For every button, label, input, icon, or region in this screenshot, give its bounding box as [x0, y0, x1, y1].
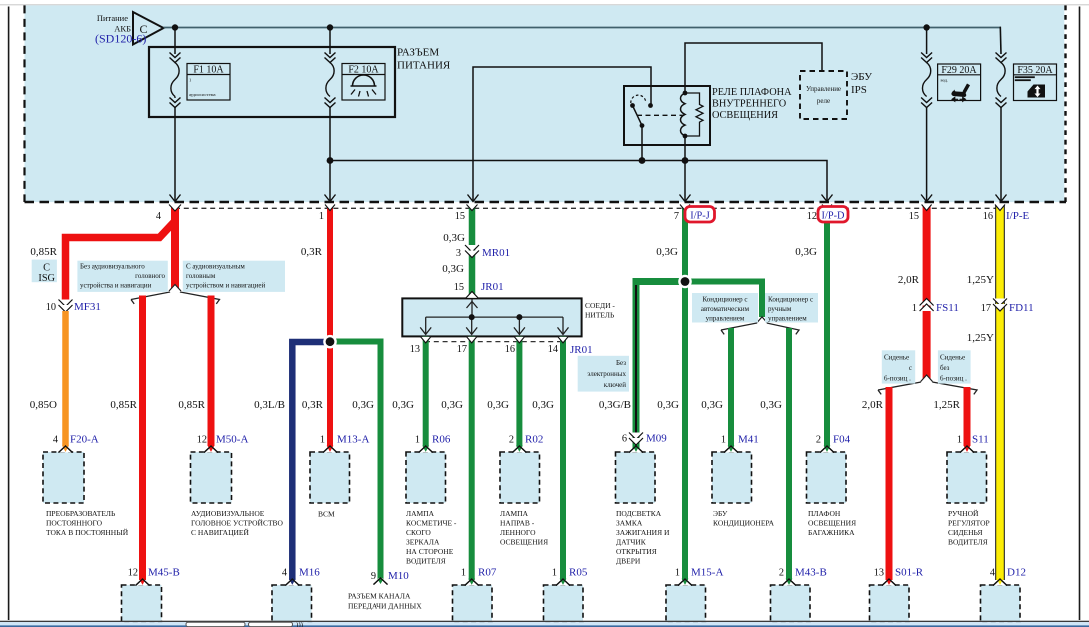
- in-line connector MR01: [456, 245, 510, 259]
- svg-text:4: 4: [282, 568, 287, 579]
- node: switch arm on relay bus: [639, 157, 646, 164]
- connector M10 wire end: [348, 570, 422, 611]
- svg-text:0,3R: 0,3R: [301, 246, 323, 258]
- wire 0.3G joint to R05: [560, 337, 566, 581]
- node junction M13 wire: [323, 335, 337, 349]
- label СОЕДИНИТЕЛЬ: [585, 301, 615, 320]
- svg-text:0,3G: 0,3G: [441, 399, 463, 411]
- connector M45-B: [122, 567, 180, 623]
- variant fork under pin 4: [131, 284, 220, 304]
- svg-text:С НАВИГАЦИЕЙ: С НАВИГАЦИЕЙ: [191, 528, 249, 537]
- white notch pin 4: [169, 205, 181, 212]
- svg-text:ПЕРЕДАЧИ ДАННЫХ: ПЕРЕДАЧИ ДАННЫХ: [348, 602, 422, 611]
- bottom window bar: [0, 621, 1089, 627]
- svg-text:с: с: [909, 364, 912, 372]
- svg-text:C: C: [43, 263, 50, 274]
- svg-text:I/P-D: I/P-D: [822, 211, 845, 222]
- svg-text:ПИТАНИЯ: ПИТАНИЯ: [397, 60, 451, 72]
- white notch pin 1: [325, 205, 335, 211]
- connector R06: [406, 434, 451, 504]
- svg-text:ЛАМПА: ЛАМПА: [406, 509, 435, 518]
- wire 0.3G pin 12 to F04: [824, 205, 830, 446]
- svg-text:0,3G: 0,3G: [442, 263, 464, 275]
- labels 0,3G x4: [392, 399, 554, 411]
- label 1,25Y lower: [967, 332, 994, 344]
- svg-text:S01-R: S01-R: [895, 567, 924, 579]
- label 0,3G/B: [599, 399, 631, 411]
- node: bus junction at F29: [923, 24, 929, 30]
- white notch pin 12: [822, 205, 832, 211]
- svg-text:17: 17: [981, 303, 991, 314]
- label 2,0R: [898, 274, 920, 286]
- callout without electronic keys: [578, 356, 629, 392]
- wire bus into fuse F29: [926, 28, 928, 55]
- svg-text:MR01: MR01: [482, 247, 510, 259]
- svg-text:I/P-J: I/P-J: [690, 211, 709, 222]
- svg-text:4: 4: [156, 211, 161, 222]
- svg-text:12: 12: [197, 435, 207, 446]
- svg-text:0,3G/B: 0,3G/B: [599, 399, 631, 411]
- connector S11: [947, 434, 989, 504]
- wire F2 bus down to pin 1: [329, 161, 331, 202]
- connector code I/P-D: [818, 207, 848, 223]
- svg-text:F35 20A: F35 20A: [1017, 65, 1053, 76]
- wire bus down to pin 7: [684, 161, 686, 202]
- svg-text:ВНУТРЕННЕГО: ВНУТРЕННЕГО: [712, 99, 787, 110]
- svg-text:0,85R: 0,85R: [178, 399, 205, 411]
- svg-text:M50-A: M50-A: [216, 434, 248, 446]
- page frame left border: [8, 7, 10, 621]
- svg-text:РУЧНОЙ: РУЧНОЙ: [948, 509, 979, 518]
- svg-text:R07: R07: [478, 567, 497, 579]
- connector M16: [272, 567, 320, 623]
- svg-text:1: 1: [721, 435, 726, 446]
- label 0,3G M15: [657, 399, 679, 411]
- arrow into pin 16: [996, 195, 1007, 202]
- svg-text:Без: Без: [616, 359, 626, 367]
- svg-text:ПРЕОБРАЗОВАТЕЛЬ: ПРЕОБРАЗОВАТЕЛЬ: [46, 509, 116, 518]
- svg-text:ЗАМКА: ЗАМКА: [616, 519, 643, 528]
- svg-text:0,3L/B: 0,3L/B: [254, 399, 285, 411]
- main battery bus wire: [164, 27, 1002, 29]
- callout seat without 6-pos: [938, 350, 971, 383]
- wire 0.3G to M10: [333, 342, 381, 579]
- svg-text:1: 1: [319, 211, 324, 222]
- wire 0.3L/B to M16: [292, 342, 327, 580]
- svg-text:1,25R: 1,25R: [933, 399, 960, 411]
- svg-text:4: 4: [53, 435, 58, 446]
- svg-text:R06: R06: [432, 434, 451, 446]
- svg-text:ЗЕРКАЛА: ЗЕРКАЛА: [406, 538, 440, 547]
- svg-text:Без аудиовизуального: Без аудиовизуального: [80, 262, 145, 270]
- svg-text:управлением: управлением: [768, 315, 807, 323]
- relay switch contacts: [630, 95, 684, 128]
- fuse F35 label box with power window icon: [1014, 64, 1057, 101]
- svg-text:2: 2: [779, 568, 784, 579]
- IPS control unit dashed box: [800, 71, 847, 119]
- power supply hot-at-all-times shaded box: [25, 5, 1067, 202]
- wire relay coil to IPS control: [685, 43, 822, 93]
- svg-text:устройством и навигацией: устройством и навигацией: [186, 281, 265, 289]
- svg-text:16: 16: [983, 211, 993, 222]
- description M13-A: [318, 510, 335, 519]
- white notch pin 15: [467, 205, 478, 211]
- svg-text:6: 6: [622, 434, 627, 445]
- fuse F35 symbol: [996, 27, 1007, 108]
- svg-text:M15-A: M15-A: [691, 567, 723, 579]
- svg-text:1: 1: [461, 568, 466, 579]
- connector code I/P-J: [685, 207, 715, 223]
- wire relay switch arm to bus: [641, 126, 643, 161]
- wire F29 to pin 15 right: [926, 108, 928, 202]
- wire from bus into fuse F2: [329, 28, 331, 55]
- wire 0.3G joint to R02: [516, 337, 522, 447]
- svg-text:ОСВЕЩЕНИЯ: ОСВЕЩЕНИЯ: [500, 538, 548, 547]
- svg-text:0,3G: 0,3G: [760, 399, 782, 411]
- node junction pin7 wire: [678, 275, 692, 289]
- svg-text:1: 1: [957, 435, 962, 446]
- svg-text:2,0R: 2,0R: [862, 399, 884, 411]
- description M09: [616, 509, 670, 566]
- svg-text:0,85O: 0,85O: [30, 399, 57, 411]
- svg-text:0,3G: 0,3G: [352, 399, 374, 411]
- svg-text:БАГАЖНИКА: БАГАЖНИКА: [808, 528, 855, 537]
- svg-text:15: 15: [454, 282, 464, 293]
- svg-text:FS11: FS11: [936, 302, 959, 314]
- connector M15-A: [666, 567, 723, 623]
- variant fork seats: [878, 375, 977, 395]
- wire 2.0R pin 15 to seat fork: [923, 205, 931, 380]
- wire from bus into fuse F1: [174, 28, 176, 55]
- svg-text:ПЛАФОН: ПЛАФОН: [808, 509, 841, 518]
- fuse F29 symbol: [921, 53, 932, 108]
- svg-text:M10: M10: [388, 570, 409, 582]
- svg-text:НАПРАВ -: НАПРАВ -: [500, 519, 535, 528]
- svg-text:устройства и навигации: устройства и навигации: [80, 281, 152, 289]
- svg-text:15: 15: [909, 211, 919, 222]
- svg-text:6-позиц .: 6-позиц .: [940, 375, 967, 383]
- svg-text:2: 2: [509, 435, 514, 446]
- description M41: [713, 509, 775, 528]
- arrow into pin 1: [325, 195, 336, 202]
- node: bus junction at F2: [327, 24, 333, 30]
- svg-text:FD11: FD11: [1009, 302, 1034, 314]
- svg-text:R02: R02: [525, 434, 543, 446]
- svg-text:СОЕДИ -: СОЕДИ -: [585, 301, 615, 310]
- svg-text:F2 10A: F2 10A: [348, 65, 379, 76]
- callout without audio-visual unit: [77, 261, 167, 292]
- svg-text:ОСВЕЩЕНИЯ: ОСВЕЩЕНИЯ: [712, 110, 778, 121]
- description F20-A: [46, 509, 129, 537]
- svg-text:0,3G: 0,3G: [656, 246, 678, 258]
- fuse F29 label box with driver seat icon: [938, 64, 981, 101]
- svg-text:автоматическим: автоматическим: [701, 305, 750, 313]
- svg-text:16: 16: [505, 344, 515, 355]
- label 1,25Y: [967, 274, 994, 286]
- svg-text:M41: M41: [738, 434, 759, 446]
- svg-text:ЛЕННОГО: ЛЕННОГО: [500, 528, 536, 537]
- svg-text:ЛАМПА: ЛАМПА: [500, 509, 529, 518]
- label РАЗЪЕМ ПИТАНИЯ: [397, 47, 451, 72]
- wire F1 to pin 4: [174, 108, 176, 202]
- description F04: [808, 509, 856, 537]
- pin labels row: [156, 210, 1030, 222]
- page frame right border: [1079, 7, 1081, 621]
- relay switched output wire to pin 15: [473, 67, 651, 201]
- arrow into pin 15: [468, 195, 479, 202]
- connector R07: [453, 567, 497, 623]
- svg-text:головным: головным: [186, 272, 216, 280]
- svg-text:НИТЕЛЬ: НИТЕЛЬ: [585, 311, 615, 320]
- wire relay coil to bus: [684, 136, 686, 161]
- joint exit pin labels 13 17 16 14 JR01: [410, 344, 593, 356]
- svg-text:3: 3: [456, 248, 461, 259]
- label 0,85R M45: [110, 399, 137, 411]
- wire 0.3G from pin 15 to joint connector: [469, 205, 476, 297]
- svg-text:0,85R: 0,85R: [110, 399, 137, 411]
- svg-text:F29 20A: F29 20A: [941, 65, 977, 76]
- svg-text:АУДИОВИЗУАЛЬНОЕ: АУДИОВИЗУАЛЬНОЕ: [191, 509, 265, 518]
- svg-text:ОТКРЫТИЯ: ОТКРЫТИЯ: [616, 547, 657, 556]
- svg-text:без: без: [940, 364, 950, 372]
- wire 0.3R from pin 1 to M13-A: [327, 205, 333, 446]
- wire 2.0R to S01-R: [886, 387, 893, 580]
- connector M13-A: [310, 434, 369, 504]
- labels 0,3G M41 M43: [701, 399, 782, 411]
- wire F35 to pin 16: [1000, 108, 1002, 202]
- description S11: [948, 509, 990, 547]
- svg-text:ручным: ручным: [768, 305, 792, 313]
- wire 0.85R from pin 4 (main): [171, 205, 179, 290]
- svg-text:13: 13: [874, 568, 884, 579]
- label РЕЛЕ ПЛАФОНА ВНУТРЕННЕГО ОСВЕЩЕНИЯ: [712, 87, 792, 121]
- arrow into pin 15 right: [921, 195, 932, 202]
- fuse F2 symbol: [325, 53, 336, 108]
- svg-text:КОСМЕТИЧЕ -: КОСМЕТИЧЕ -: [406, 519, 457, 528]
- svg-text:M43-B: M43-B: [795, 567, 827, 579]
- svg-text:1: 1: [912, 303, 917, 314]
- relay feed bus wire to pin 12: [330, 161, 827, 202]
- svg-text:13: 13: [410, 344, 420, 355]
- connector F04: [807, 434, 851, 504]
- variant fork AC: [721, 316, 799, 334]
- label 0,3G pin12: [795, 246, 817, 258]
- wire 1.25Y pin 16 to D12: [995, 205, 1005, 580]
- svg-text:M13-A: M13-A: [337, 434, 369, 446]
- svg-text:1,25Y: 1,25Y: [967, 332, 994, 344]
- description R02: [500, 509, 548, 547]
- svg-text:ГОЛОВНОЕ УСТРОЙСТВО: ГОЛОВНОЕ УСТРОЙСТВО: [191, 519, 284, 528]
- svg-text:управлением: управлением: [706, 315, 745, 323]
- svg-text:M09: M09: [646, 433, 667, 445]
- svg-text:КОНДИЦИОНЕРА: КОНДИЦИОНЕРА: [713, 519, 775, 528]
- relay К1 interior lamp relay box: [624, 86, 710, 145]
- wire 1.25R to S11: [964, 387, 971, 446]
- svg-text:F04: F04: [833, 434, 851, 446]
- svg-text:F1 10A: F1 10A: [193, 65, 224, 76]
- white notch pin 7: [680, 205, 690, 211]
- connector R05: [544, 567, 588, 623]
- svg-text:ОСВЕЩЕНИЯ: ОСВЕЩЕНИЯ: [808, 519, 856, 528]
- arrow into pin 4: [170, 195, 181, 202]
- svg-text:M45-B: M45-B: [148, 567, 180, 579]
- connector M09: [616, 446, 656, 503]
- wire F2 down to relay bus: [329, 108, 331, 161]
- battery feed triangle connector C (SD120-6): [95, 12, 164, 46]
- fuse F1 label box: [187, 64, 230, 101]
- svg-text:10: 10: [46, 302, 56, 313]
- joint connector exit pins dashed line: [425, 341, 563, 343]
- joint connector box СОЕДИНИТЕЛЬ: [402, 292, 581, 337]
- labels 0,3L/B 0,3R 0,3G row2: [254, 399, 374, 411]
- svg-text:СКОГО: СКОГО: [406, 528, 431, 537]
- svg-text:9: 9: [371, 571, 376, 582]
- svg-text:Сиденье: Сиденье: [884, 354, 909, 362]
- wire 0.85R to M50-A: [208, 296, 215, 447]
- svg-text:1: 1: [320, 435, 325, 446]
- svg-text:РЕЛЕ ПЛАФОНА: РЕЛЕ ПЛАФОНА: [712, 87, 792, 98]
- node: junction F2/relay bus: [327, 157, 334, 164]
- relay coil parallel resistor: [685, 93, 703, 136]
- svg-text:Сиденье: Сиденье: [940, 354, 965, 362]
- svg-text:ВОДИТЕЛЯ: ВОДИТЕЛЯ: [406, 557, 446, 566]
- svg-text:0,3G: 0,3G: [392, 399, 414, 411]
- white notch pin 16: [995, 205, 1005, 211]
- svg-text:))): ))): [296, 621, 304, 627]
- svg-text:JR01: JR01: [570, 344, 593, 356]
- svg-text:0,85R: 0,85R: [30, 246, 57, 258]
- svg-text:реле: реле: [817, 97, 830, 105]
- label ЭБУ IPS: [851, 71, 872, 96]
- wire 0.3G/B branch to M09: [636, 282, 683, 447]
- connector S01-R: [870, 567, 924, 623]
- wire 0.3G joint to R06: [423, 337, 429, 447]
- svg-text:ключей: ключей: [604, 381, 626, 389]
- svg-text:7: 7: [674, 211, 679, 222]
- description M50-A: [191, 509, 284, 537]
- fuse F2 label box with lamp icon: [342, 64, 385, 101]
- in-line connector FS11 (up): [912, 299, 959, 315]
- in-line connector MF31: [46, 300, 101, 314]
- joint connector internal bus: [420, 299, 568, 334]
- arrow into pin 7: [680, 195, 691, 202]
- arrow into pin 12: [822, 195, 833, 202]
- svg-text:R05: R05: [569, 567, 588, 579]
- svg-text:2: 2: [816, 435, 821, 446]
- labels 2,0R 1,25R: [862, 399, 961, 411]
- svg-text:ТОКА В ПОСТОЯННЫЙ: ТОКА В ПОСТОЯННЫЙ: [46, 528, 129, 537]
- svg-text:Кондиционер с: Кондиционер с: [768, 296, 813, 304]
- svg-text:ДВЕРИ: ДВЕРИ: [616, 557, 641, 566]
- svg-text:С аудиовизуальным: С аудиовизуальным: [186, 262, 245, 270]
- wire M09 stub to connector: [633, 444, 640, 449]
- svg-text:I/P-E: I/P-E: [1006, 210, 1030, 222]
- svg-text:12: 12: [807, 211, 817, 222]
- svg-text:0,3G: 0,3G: [532, 399, 554, 411]
- svg-text:электронных: электронных: [587, 370, 626, 378]
- wire 0.85R to M45-B: [139, 296, 146, 581]
- svg-text:1,25Y: 1,25Y: [967, 274, 994, 286]
- wire 0.85R branch to MF31: [66, 221, 176, 300]
- svg-text:вод.: вод.: [941, 78, 949, 83]
- callout AC manual: [765, 293, 818, 323]
- svg-text:0,3G: 0,3G: [701, 399, 723, 411]
- svg-text:D12: D12: [1007, 567, 1026, 579]
- fuse F1 symbol: [170, 53, 181, 108]
- svg-text:НА СТОРОНЕ: НА СТОРОНЕ: [406, 547, 454, 556]
- white notch pin 15 right: [922, 205, 932, 211]
- power connector fuse block box: [149, 47, 395, 117]
- svg-text:2,0R: 2,0R: [898, 274, 920, 286]
- callout with audio-visual unit: [183, 261, 285, 292]
- svg-text:0,3G: 0,3G: [657, 399, 679, 411]
- label 0,85R: [30, 246, 57, 258]
- svg-text:РЕГУЛЯТОР: РЕГУЛЯТОР: [948, 519, 990, 528]
- connector M41: [712, 434, 759, 504]
- svg-text:MF31: MF31: [74, 301, 101, 313]
- label 0,3R top: [301, 246, 323, 258]
- svg-text:головного: головного: [135, 272, 165, 280]
- svg-text:аудиосистема: аудиосистема: [189, 92, 216, 97]
- wire 0.3G pin 7 to M15-A: [682, 205, 688, 580]
- svg-text:ЭБУ: ЭБУ: [851, 71, 872, 83]
- svg-text:ЗАЖИГАНИЯ И: ЗАЖИГАНИЯ И: [616, 528, 670, 537]
- svg-text:Питание: Питание: [97, 13, 128, 23]
- in-line connector M09: [622, 433, 667, 446]
- svg-text:15: 15: [455, 211, 465, 222]
- node: bus junction at F1: [172, 24, 178, 30]
- svg-text:ВСМ: ВСМ: [318, 510, 335, 519]
- svg-text:1: 1: [552, 568, 557, 579]
- white notches joint exits: [421, 337, 568, 343]
- wire 0.3G branch to AC fork: [685, 282, 762, 318]
- label 0,3G pin15: [443, 232, 465, 244]
- svg-text:14: 14: [548, 344, 558, 355]
- connector rail dashed line: [175, 207, 1001, 209]
- svg-text:Кондиционер с: Кондиционер с: [702, 296, 747, 304]
- svg-text:Управление: Управление: [806, 85, 841, 93]
- svg-text:СИДЕНЬЯ: СИДЕНЬЯ: [948, 528, 982, 537]
- label 0,3G below MR01: [442, 263, 464, 275]
- relay coil: [681, 91, 688, 139]
- wire 0.3G to M43-B: [786, 328, 792, 580]
- connector M50-A: [191, 434, 249, 504]
- svg-text:IPS: IPS: [851, 84, 867, 96]
- svg-text:12: 12: [128, 568, 138, 579]
- svg-text:1: 1: [675, 568, 680, 579]
- label 0,85O: [30, 399, 57, 411]
- svg-text:ПОДСВЕТКА: ПОДСВЕТКА: [616, 509, 662, 518]
- connector R02: [500, 434, 543, 504]
- svg-text:ISG: ISG: [38, 273, 55, 284]
- svg-text:РАЗЪЕМ: РАЗЪЕМ: [397, 47, 439, 59]
- svg-text:РАЗЪЕМ КАНАЛА: РАЗЪЕМ КАНАЛА: [348, 592, 411, 601]
- svg-text:4: 4: [990, 568, 995, 579]
- in-line connector FD11: [981, 299, 1034, 315]
- svg-text:ПОСТОЯННОГО: ПОСТОЯННОГО: [46, 519, 103, 528]
- node: coil on relay bus: [682, 157, 689, 164]
- svg-text:JR01: JR01: [481, 281, 504, 293]
- svg-text:F20-A: F20-A: [70, 434, 99, 446]
- callout C ISG: [32, 260, 57, 284]
- svg-text:0,3R: 0,3R: [302, 399, 324, 411]
- svg-text:(SD120-6): (SD120-6): [95, 32, 146, 46]
- svg-text:ДАТЧИК: ДАТЧИК: [616, 538, 647, 547]
- svg-text:1: 1: [415, 435, 420, 446]
- svg-text:0,3G: 0,3G: [443, 232, 465, 244]
- svg-text:ВОДИТЕЛЯ: ВОДИТЕЛЯ: [948, 538, 988, 547]
- connector D12: [981, 567, 1026, 623]
